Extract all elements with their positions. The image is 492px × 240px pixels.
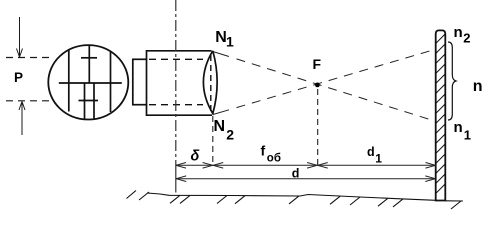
barrel mount ring (left small rect) [133,59,147,104]
svg-text:d: d [292,167,300,181]
dashed level line bottom (P lower) [6,100,50,102]
filament tick lower [79,100,99,102]
svg-text:f: f [261,143,266,159]
svg-text:P: P [14,70,23,85]
focal point F [315,83,320,88]
svg-text:об: об [267,153,281,165]
ray N2 to n2 (solid start) [213,110,229,115]
screen (hatched bar) [436,30,446,200]
filament lower pair left [84,83,86,119]
svg-text:n: n [473,78,483,95]
ray N2 to n2 (dashed) [237,49,436,107]
svg-text:N: N [214,118,226,135]
filament tick upper [81,57,97,59]
objective lens [203,51,217,114]
filament lower pair right [93,83,95,119]
svg-text:2: 2 [463,30,470,45]
screen hatching [436,34,446,194]
brace for image height n [448,42,456,120]
hidden tube edge bottom (dashed) [149,104,203,106]
filament vertical line right [110,52,112,112]
dimension line 2 (d) [176,178,436,180]
svg-text:2: 2 [226,126,234,142]
hidden tube edge top (dashed) [149,58,203,60]
ray N1 to n1 (dashed) [237,59,436,121]
svg-text:n: n [454,119,463,136]
axis solid foot [175,168,177,193]
ray N1 to n1 (solid start) [213,52,229,57]
filament equator line [59,82,122,84]
dimension line 1 (delta, f_ob, d1) [176,164,436,166]
svg-text:1: 1 [226,34,234,50]
svg-text:n: n [454,24,463,41]
arrowheads dimension line 1 [176,163,436,169]
svg-text:1: 1 [375,152,382,166]
svg-text:1: 1 [464,127,471,142]
down arrow (object height pointer top) [17,17,23,57]
svg-text:δ: δ [191,149,200,165]
barrel main tube [147,51,213,115]
ground hatch ticks [127,191,462,210]
dashed drop line from F [317,89,319,165]
up arrow (object height pointer bottom) [19,102,25,136]
dashed level line top (P upper) [6,57,50,59]
lamp bulb (circle) [48,45,128,119]
dashed drop line from lens N2 [212,116,214,164]
svg-text:d: d [367,145,375,159]
optical axis vertical (dash-dot) [175,0,177,168]
hidden barrel right edge inside lens (dashed) [210,55,212,111]
filament vertical line left [68,49,70,112]
filament vertical line center-top [88,45,90,83]
svg-text:F: F [313,56,322,72]
ground line [147,193,463,201]
